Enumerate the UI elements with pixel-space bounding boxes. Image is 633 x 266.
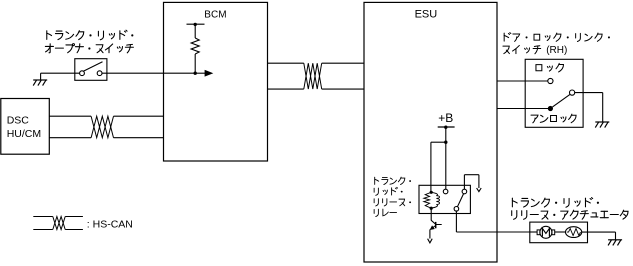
relay common pin <box>454 207 459 212</box>
wire HS-CAN high DSC to BCM <box>49 115 91 117</box>
relay contact pin +B side <box>443 189 448 194</box>
label door lock link switch line1 (ドア・ロック・リンク・) <box>504 33 610 42</box>
unlock contact (common, filled) <box>548 106 553 111</box>
twisted pair symbol (DSC-BCM) <box>91 116 113 138</box>
arrow signal into BCM <box>195 72 205 74</box>
label trunk lid opener switch line2 (オープナ・スイッチ) <box>45 44 133 53</box>
node junction dot (BCM input) <box>194 72 197 75</box>
wire switch to ground <box>575 92 603 94</box>
wire rail to resistor <box>194 24 196 38</box>
svg-text:DSC: DSC <box>7 114 30 126</box>
junction dot +B branch <box>444 141 447 144</box>
wire relay common to actuator <box>455 211 457 232</box>
actuator box trunk lid release actuator <box>530 222 588 243</box>
relay K1 trunk lid release relay (box) <box>419 185 470 213</box>
arrow open (to other circuit) <box>477 188 482 192</box>
relay lever <box>457 194 463 207</box>
svg-text:BCM: BCM <box>204 9 226 20</box>
wire relay NC up-over <box>463 175 465 190</box>
wire coil to ground <box>582 231 616 233</box>
label actuator line2 (リリース・アクチュエータ) <box>512 210 628 219</box>
resistor R1 (BCM pull-up) <box>191 38 199 54</box>
legend twisted pair symbol <box>33 216 53 218</box>
arrow open (coil return continues) <box>428 239 433 243</box>
wire motor to coil <box>555 231 566 233</box>
svg-text:+B: +B <box>438 111 453 125</box>
solenoid coil (in actuator) <box>566 227 582 238</box>
junction dot under +B bar <box>444 126 447 129</box>
switch lever SW2 <box>553 94 571 107</box>
wire switch to BCM input <box>102 72 195 74</box>
wire ESU to unlock contact <box>497 108 550 110</box>
transistor (coil driver) <box>431 220 435 224</box>
moving contact circle <box>570 90 575 95</box>
ground G3 (actuator) <box>608 239 622 241</box>
switch SW1 trunk lid opener (box) <box>75 59 107 81</box>
box ESU <box>364 2 497 262</box>
wire ground to switch <box>41 72 80 74</box>
wire branch to relay contact <box>445 142 447 189</box>
wire HS-CAN low BCM to ESU <box>268 88 304 90</box>
power bar +B <box>438 126 455 128</box>
label relay line3 (リリース・) <box>374 199 411 206</box>
box BCM <box>164 2 268 161</box>
svg-text:ESU: ESU <box>415 8 438 20</box>
lock contact <box>548 78 553 83</box>
motor M1 <box>540 226 552 238</box>
wire resistor to node <box>194 54 196 73</box>
wire branch to relay coil <box>431 141 446 143</box>
label relay line1 (トランク・) <box>375 177 411 184</box>
power rail bar in BCM <box>187 23 205 25</box>
wire relay coil low side <box>430 208 432 220</box>
wire HS-CAN high BCM to ESU <box>268 62 304 64</box>
switch SW2 door lock link (box) <box>525 59 583 127</box>
label lock (ロック) <box>536 63 564 72</box>
relay contact pin NC side <box>462 189 467 194</box>
label door lock link switch line2 (スイッチ) <box>503 45 541 53</box>
wire into actuator <box>530 231 537 233</box>
svg-text:: HS-CAN: : HS-CAN <box>87 218 133 230</box>
box DSC HU/CM <box>1 99 50 155</box>
ground G2 (door lock link switch) <box>595 121 609 123</box>
wire +B down <box>445 127 447 142</box>
label relay line2 (リッド・) <box>374 187 402 195</box>
switch SW1 contacts and lever <box>80 71 85 76</box>
label unlock (アンロック) <box>531 114 576 123</box>
twisted pair symbol (BCM-ESU) <box>304 63 322 89</box>
relay coil <box>430 191 433 194</box>
wire HS-CAN low DSC to BCM <box>49 137 91 139</box>
label relay line4 (リレー) <box>374 209 396 216</box>
svg-text:HU/CM: HU/CM <box>7 128 41 140</box>
svg-text:(RH): (RH) <box>546 45 567 56</box>
junction dot on BCM rail <box>194 23 197 26</box>
label actuator line1 (トランク・リッド・) <box>512 198 599 208</box>
label M (motor) <box>542 228 549 236</box>
wire ESU to lock contact <box>497 80 548 82</box>
label trunk lid opener switch line1 (トランク・リッド・) <box>47 30 134 40</box>
ground G1 (trunk lid opener switch) <box>40 73 42 80</box>
